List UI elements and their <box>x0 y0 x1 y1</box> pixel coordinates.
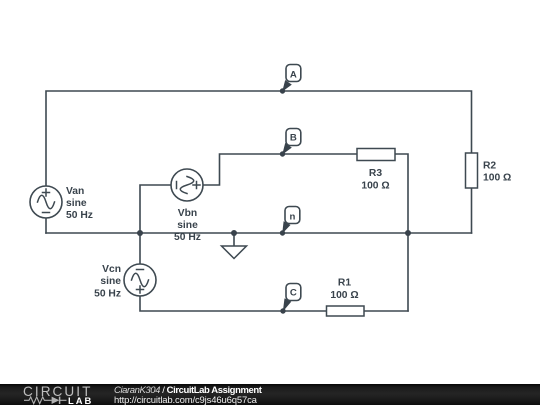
ground <box>222 233 247 259</box>
svg-text:100 Ω: 100 Ω <box>361 180 389 191</box>
svg-text:sine: sine <box>100 276 121 287</box>
svg-text:100 Ω: 100 Ω <box>330 290 358 301</box>
svg-text:R3: R3 <box>369 168 382 179</box>
resistor R3 <box>357 149 395 161</box>
footer url text <box>114 396 257 405</box>
svg-text:n: n <box>289 212 295 223</box>
svg-text:sine: sine <box>66 198 87 209</box>
voltage source Van <box>30 186 62 218</box>
svg-text:50 Hz: 50 Hz <box>66 210 93 221</box>
wire: Van bottom to neutral rail <box>45 218 47 233</box>
svg-text:100 Ω: 100 Ω <box>483 173 511 184</box>
node C flag <box>280 284 301 314</box>
wire: Vcn top to neutral rail <box>139 233 141 264</box>
svg-text:B: B <box>290 133 297 144</box>
svg-text:sine: sine <box>177 220 198 231</box>
footer title text <box>114 386 261 396</box>
wire: R3 right down middle vertical to bottom rail <box>395 154 408 311</box>
svg-text:R2: R2 <box>483 161 496 172</box>
resistor R2 <box>466 153 478 188</box>
wire: Vbn right terminal up to R3 left (net B) <box>203 154 357 185</box>
wire: neutral rail (net n) <box>46 232 472 234</box>
svg-text:50 Hz: 50 Hz <box>94 289 121 300</box>
CircuitLab logo <box>23 384 101 405</box>
resistor R1 <box>327 306 365 316</box>
wire: Vcn bottom to R1 left (net C) <box>140 296 327 311</box>
svg-text:Vcn: Vcn <box>102 264 121 275</box>
wire: neutral rail branch to Vbn left terminal <box>140 185 171 233</box>
wire: R2 bottom stub to neutral rail <box>471 188 473 233</box>
voltage source Vcn (rotated 180) <box>124 264 156 296</box>
node B flag <box>280 129 301 157</box>
node n flag <box>280 207 300 236</box>
svg-text:Vbn: Vbn <box>178 208 197 219</box>
junction: neutral rail / Vbn-Vcn branch <box>137 230 143 236</box>
svg-text:R1: R1 <box>338 278 351 289</box>
voltage source Vbn (rotated 90) <box>171 169 203 201</box>
junction: neutral rail / ground <box>231 230 237 236</box>
wire: R1 right to middle vertical <box>364 310 408 312</box>
svg-text:A: A <box>290 70 297 81</box>
footer bar <box>0 384 540 405</box>
svg-text:C: C <box>290 288 297 299</box>
svg-text:Van: Van <box>66 186 84 197</box>
wire: Van top up, across top rail, down to R2 top (net A) <box>46 91 472 186</box>
junction: neutral rail / middle vertical <box>405 230 411 236</box>
svg-text:50 Hz: 50 Hz <box>174 232 201 243</box>
node A flag <box>280 65 301 94</box>
